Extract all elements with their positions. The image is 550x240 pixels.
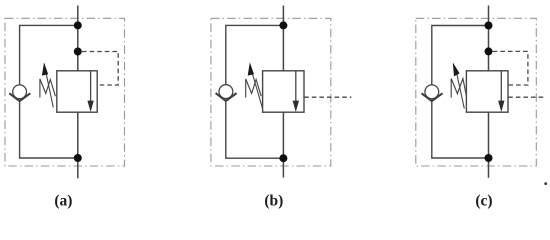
junction dot node P (b) [279, 21, 287, 29]
pilot line external (b) [304, 96, 351, 98]
flow path arrow inside U3 (c) [500, 71, 502, 102]
junction dot node P (a) [74, 21, 82, 29]
flow path arrow inside U2 (b) [295, 71, 297, 102]
enclosure boundary (a) [5, 18, 125, 166]
wire: bypass branch left (c) [432, 26, 489, 159]
wire: main line upper (b) [282, 6, 284, 71]
junction dot node P (c) [485, 22, 493, 30]
pilot line loop (c) [493, 51, 528, 85]
check valve CV2 ball (b) [219, 85, 233, 99]
check valve CV3 seat (c) [422, 93, 443, 101]
enclosure boundary (b) [211, 18, 331, 166]
svg-text:(b): (b) [264, 192, 283, 209]
check valve CV2 seat (b) [216, 93, 237, 101]
wire: main line upper (c) [488, 6, 490, 71]
svg-text:(a): (a) [54, 192, 72, 209]
junction dot pilot tap (a) [74, 48, 82, 56]
caption period [544, 182, 547, 185]
wire: main line upper (a) [77, 6, 79, 71]
check valve CV1 seat (a) [9, 93, 30, 101]
valve body U2 (b) [263, 71, 304, 112]
spring of U3 (c) [451, 79, 466, 98]
enclosure boundary (c) [416, 18, 537, 166]
valve body U1 (a) [57, 71, 97, 112]
check valve CV1 ball (a) [13, 85, 27, 99]
junction dot node T (c) [485, 154, 493, 162]
adjustment arrow of U3 (c) [456, 71, 464, 109]
svg-text:(c): (c) [475, 192, 492, 209]
wire: main line lower (b) [282, 112, 284, 177]
junction dot node T (a) [74, 154, 82, 162]
adjustment arrow of U1 (a) [45, 69, 53, 108]
wire: main line lower (c) [488, 112, 490, 178]
junction dot node T (b) [279, 154, 287, 162]
wire: bypass branch left (a) [20, 25, 78, 158]
valve body U3 (c) [466, 71, 508, 112]
junction dot pilot tap (c) [485, 47, 493, 55]
pilot line external vent (c) [508, 96, 544, 98]
pilot line (a) [82, 52, 118, 86]
spring of U2 (b) [246, 79, 262, 98]
check valve CV3 ball (c) [425, 85, 439, 99]
adjustment arrow of U2 (b) [251, 70, 262, 109]
wire: bypass branch left (b) [226, 25, 284, 158]
flow path arrow inside U1 (a) [90, 71, 92, 102]
spring of U1 (a) [40, 79, 56, 98]
wire: main line lower (a) [77, 112, 79, 178]
